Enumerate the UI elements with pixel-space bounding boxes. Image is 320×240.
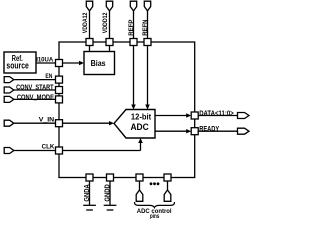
svg-text:GNDD: GNDD — [102, 184, 111, 202]
svg-text:CLK: CLK — [42, 143, 55, 150]
svg-text:DATA<11:0>: DATA<11:0> — [199, 108, 234, 117]
svg-text:CONV_MODE: CONV_MODE — [17, 92, 54, 101]
svg-text:ADC: ADC — [130, 122, 149, 132]
svg-text:REFP: REFP — [128, 19, 135, 36]
svg-text:pins: pins — [150, 213, 160, 219]
svg-text:VDDD12: VDDD12 — [102, 12, 109, 33]
svg-text:VDDA12: VDDA12 — [82, 12, 89, 33]
svg-text:REFN: REFN — [142, 19, 149, 35]
svg-text:I10UA: I10UA — [36, 56, 53, 63]
svg-text:GNDA: GNDA — [82, 184, 91, 202]
svg-text:READY: READY — [199, 124, 219, 133]
svg-text:EN: EN — [45, 73, 52, 80]
svg-text:source: source — [6, 60, 28, 70]
svg-text:CONV_START: CONV_START — [16, 82, 54, 91]
svg-text:V_IN: V_IN — [39, 116, 54, 123]
svg-text:Bias: Bias — [91, 59, 106, 68]
svg-text:12-bit: 12-bit — [131, 112, 151, 122]
